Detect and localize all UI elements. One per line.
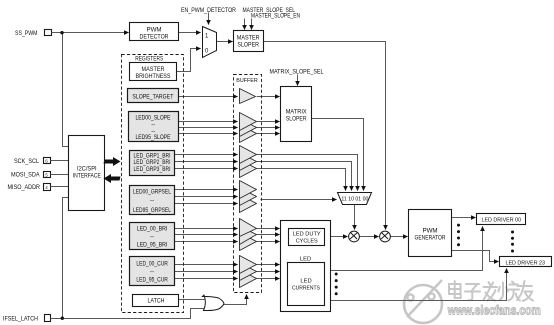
svg-text:MATRIX_SLOPE_SEL: MATRIX_SLOPE_SEL: [270, 69, 324, 76]
svg-text:LED: LED: [300, 279, 311, 285]
svg-text:LATCH: LATCH: [148, 298, 165, 305]
svg-text:SLOPE_TARGET: SLOPE_TARGET: [132, 93, 173, 100]
svg-text:11 10 01 00: 11 10 01 00: [341, 196, 368, 202]
svg-text:LED00_GRPSEL: LED00_GRPSEL: [133, 189, 171, 196]
svg-text:LED DRIVER 00: LED DRIVER 00: [482, 218, 522, 224]
svg-text:LED_GRP3_BRI: LED_GRP3_BRI: [134, 166, 171, 173]
svg-text:CURRENTS: CURRENTS: [292, 286, 320, 292]
svg-text:SLOPER: SLOPER: [286, 116, 307, 123]
svg-text:--: --: [150, 268, 154, 275]
svg-text:LED_00_BRI: LED_00_BRI: [137, 225, 168, 232]
svg-text:CYCLES: CYCLES: [296, 239, 318, 245]
svg-text:MASTER_SLOPE_EN: MASTER_SLOPE_EN: [251, 13, 300, 20]
svg-text:MOSI_SDA: MOSI_SDA: [11, 172, 40, 179]
svg-text:www.elecfans.com: www.elecfans.com: [447, 302, 541, 317]
svg-text:GENERATOR: GENERATOR: [415, 235, 446, 242]
svg-text:MASTER: MASTER: [142, 66, 165, 73]
svg-text:MASTER: MASTER: [237, 35, 260, 42]
svg-text:REGISTERS: REGISTERS: [135, 56, 163, 63]
svg-text:LED_00_CUR: LED_00_CUR: [136, 260, 168, 267]
svg-text:INTERFACE: INTERFACE: [73, 172, 101, 179]
svg-text:LED00_SLOPE: LED00_SLOPE: [136, 114, 171, 121]
svg-text:IFSEL_LATCH: IFSEL_LATCH: [3, 315, 38, 322]
svg-text:BUFFER: BUFFER: [236, 78, 257, 84]
svg-text:EN_PWM_DETECTOR: EN_PWM_DETECTOR: [181, 7, 236, 14]
svg-text:SS_PWM: SS_PWM: [15, 30, 38, 37]
svg-text:BRIGHTNESS: BRIGHTNESS: [136, 73, 171, 80]
svg-text:PWM: PWM: [422, 228, 437, 235]
svg-text:LED DUTY: LED DUTY: [293, 232, 321, 238]
svg-text:--: --: [150, 197, 154, 204]
svg-text:LED: LED: [300, 256, 311, 262]
svg-text:LED95_GRPSEL: LED95_GRPSEL: [133, 207, 171, 214]
svg-text:SCK_SCL: SCK_SCL: [14, 158, 39, 165]
svg-text:MISO_ADDR: MISO_ADDR: [8, 184, 41, 191]
svg-text:LED DRIVER 23: LED DRIVER 23: [506, 261, 546, 267]
svg-text:SLOPER: SLOPER: [237, 42, 259, 49]
svg-text:MATRIX: MATRIX: [286, 109, 307, 116]
svg-text:LED_95_BRI: LED_95_BRI: [137, 241, 168, 248]
svg-text:I2C/SPI: I2C/SPI: [77, 165, 97, 172]
svg-text:LED95_SLOPE: LED95_SLOPE: [136, 134, 171, 141]
svg-text:--: --: [150, 233, 154, 240]
svg-text:PWM: PWM: [146, 26, 161, 33]
svg-text:DETECTOR: DETECTOR: [140, 33, 169, 40]
svg-text:LED_95_CUR: LED_95_CUR: [136, 277, 168, 284]
